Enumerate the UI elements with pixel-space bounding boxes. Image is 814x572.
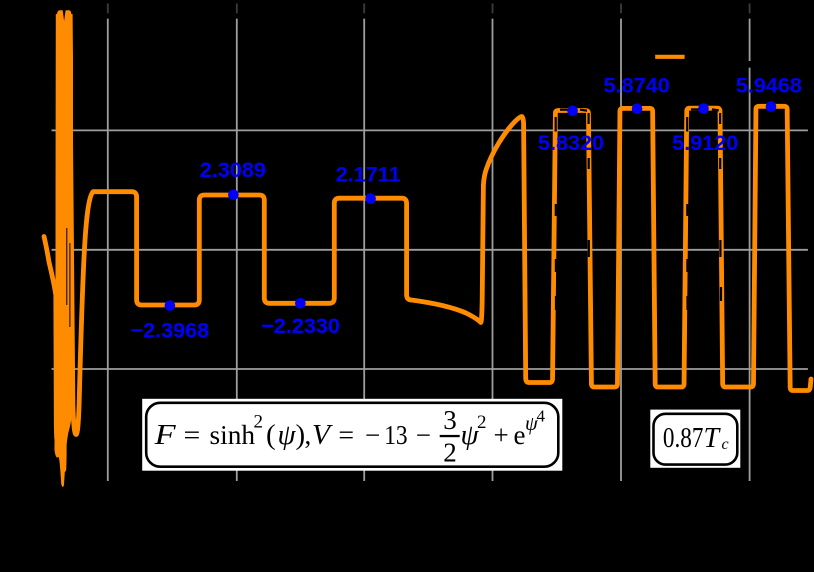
- svg-text:2: 2: [477, 412, 487, 433]
- svg-text:−2.3968: −2.3968: [130, 318, 209, 343]
- svg-text:F: F: [154, 419, 177, 451]
- svg-text:5.9468: 5.9468: [736, 73, 802, 98]
- svg-text:=: =: [184, 420, 201, 450]
- svg-text:−2.2330: −2.2330: [261, 313, 340, 338]
- svg-text:−: −: [416, 420, 431, 450]
- svg-text:5.8320: 5.8320: [538, 130, 604, 155]
- svg-text:2.3089: 2.3089: [200, 157, 266, 182]
- svg-text:V: V: [312, 420, 333, 451]
- svg-text:2: 2: [443, 438, 457, 468]
- blue marker 5.8740: [632, 104, 643, 115]
- blue marker 5.8320: [567, 106, 578, 117]
- tick stubs above plot top: [108, 4, 750, 14]
- svg-text:,: ,: [305, 420, 312, 450]
- svg-text:e: e: [514, 420, 526, 450]
- black dashed overlay on pulse 3: [687, 109, 721, 310]
- legend line (orange sample): [655, 55, 684, 59]
- svg-text:2.1711: 2.1711: [336, 161, 401, 186]
- svg-text:13: 13: [384, 420, 407, 450]
- blue marker -2.2330: [295, 298, 306, 309]
- spike internal hairline gap 2: [69, 243, 70, 327]
- blue marker 5.9468: [766, 101, 777, 112]
- blue marker 2.1711: [365, 193, 376, 204]
- formula box white background: [142, 399, 562, 471]
- orange curve psi(t): [44, 13, 811, 470]
- Tc box text 0.87Tc: [663, 423, 729, 454]
- blue marker 5.9120: [698, 103, 709, 114]
- svg-text:(: (: [266, 419, 276, 451]
- svg-text:0.87: 0.87: [663, 423, 704, 454]
- spike internal hairline gap 1: [66, 228, 67, 305]
- svg-text:=: =: [338, 420, 354, 450]
- svg-text:+: +: [494, 420, 509, 450]
- Tc box white background: [650, 410, 740, 468]
- blue marker -2.3968: [165, 300, 176, 311]
- vertical gridlines: [108, 19, 750, 481]
- svg-text:5.8740: 5.8740: [604, 73, 670, 98]
- svg-text:3: 3: [443, 405, 457, 435]
- transient band solid underlay: [54, 14, 73, 487]
- svg-text:−: −: [365, 420, 380, 450]
- horizontal gridlines: [52, 130, 808, 369]
- svg-text:4: 4: [537, 407, 546, 426]
- svg-text:5.9120: 5.9120: [672, 130, 738, 155]
- spike notch (black wedge between the two initial peaks): [63, 9, 66, 21]
- legend text artifact (black glyph over gridline): [748, 61, 751, 68]
- svg-text:c: c: [722, 436, 729, 453]
- Tc box rounded border: [654, 414, 738, 465]
- formula text F = sinh^2(psi), V = -13 - 3/2 psi^2 + e^psi4: [154, 405, 546, 468]
- formula box rounded border: [146, 403, 558, 467]
- black dashed overlay on pulse 1: [556, 110, 589, 389]
- svg-text:2: 2: [254, 412, 264, 433]
- blue marker 2.3089: [228, 190, 239, 201]
- svg-text:sinh: sinh: [210, 419, 256, 450]
- svg-text:ψ: ψ: [278, 419, 297, 451]
- svg-text:T: T: [704, 423, 722, 454]
